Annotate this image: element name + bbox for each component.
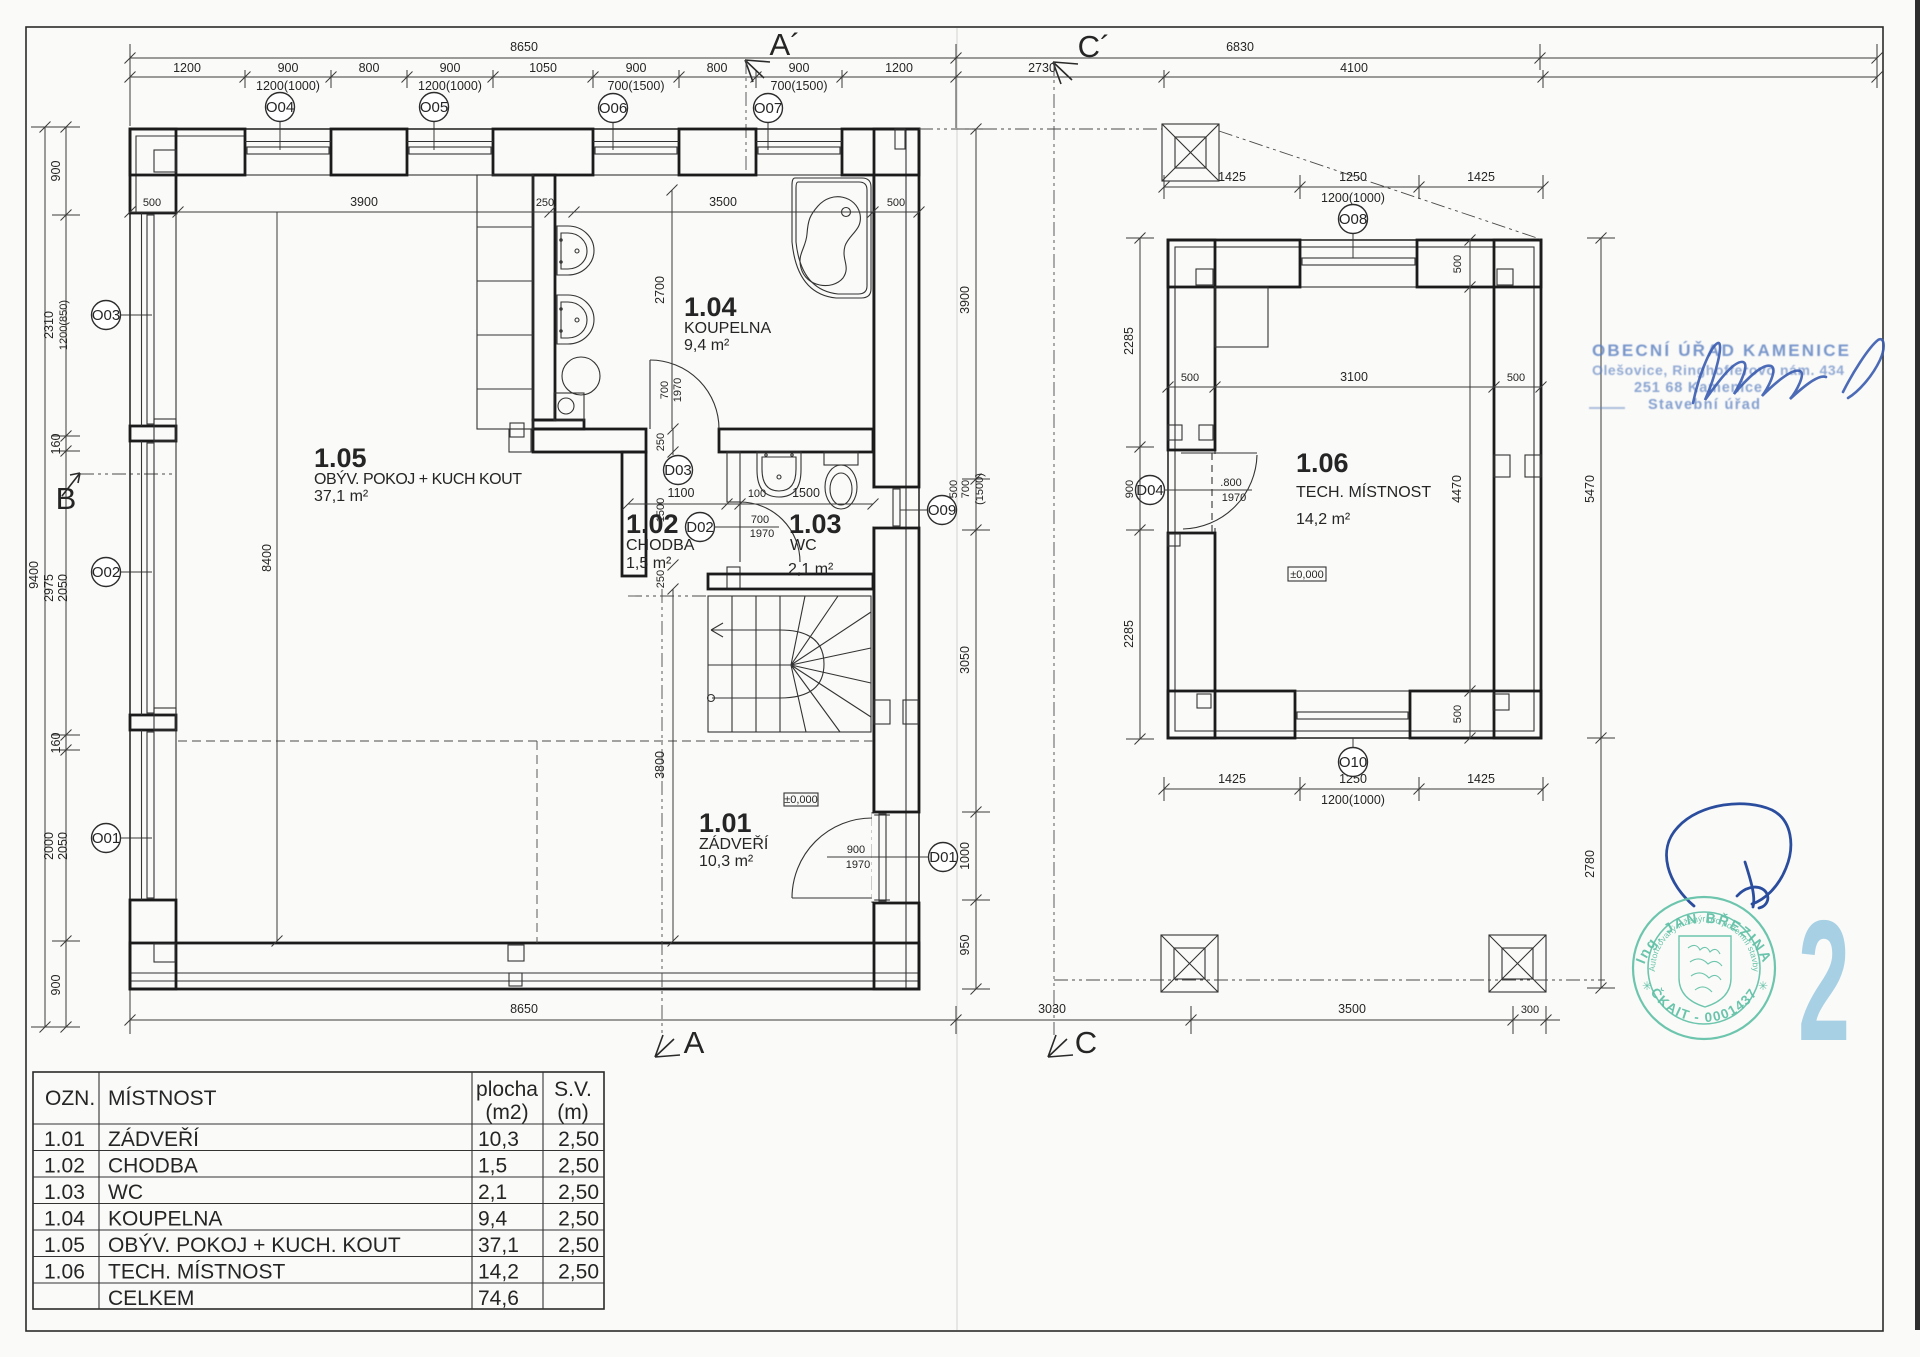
section line B dash-dot — [80, 473, 176, 475]
level marker zadveri — [784, 793, 818, 806]
svg-text:3800: 3800 — [653, 751, 667, 779]
svg-text:1,5 m²: 1,5 m² — [626, 555, 672, 572]
svg-text:1200(850): 1200(850) — [58, 300, 70, 350]
svg-text:900: 900 — [626, 61, 647, 75]
svg-text:2730: 2730 — [1028, 61, 1056, 75]
level marker tech — [1288, 567, 1326, 581]
round stamp CKAIT — [1633, 897, 1775, 1039]
svg-text:CHODBA: CHODBA — [108, 1155, 198, 1178]
svg-text:2,50: 2,50 — [558, 1208, 599, 1231]
dim chain right of tech 5470/2780 — [1587, 233, 1615, 994]
svg-text:O09: O09 — [928, 502, 956, 519]
svg-text:1200(1000): 1200(1000) — [1321, 793, 1385, 807]
svg-text:2,50: 2,50 — [558, 1128, 599, 1151]
door D04 leaf and swing — [1181, 453, 1257, 529]
svg-text:37,1: 37,1 — [478, 1234, 519, 1257]
dimension chain top line segments 1200.. — [125, 70, 1883, 88]
svg-text:ZÁDVEŘÍ: ZÁDVEŘÍ — [699, 834, 769, 853]
svg-text:✳: ✳ — [1642, 979, 1652, 993]
outer cladding leaf lines — [131, 129, 918, 989]
svg-text:MÍSTNOST: MÍSTNOST — [108, 1087, 217, 1110]
svg-text:10,3: 10,3 — [478, 1128, 519, 1151]
svg-text:O10: O10 — [1339, 754, 1367, 771]
svg-text:O06: O06 — [599, 100, 627, 117]
dim chain 1425/1250/1425 top of tech — [1159, 175, 1549, 199]
window tag O05 — [433, 122, 435, 150]
svg-text:O01: O01 — [92, 830, 120, 847]
svg-text:WC: WC — [108, 1181, 143, 1204]
svg-text:3030: 3030 — [1038, 1002, 1066, 1016]
window tag O09 with leader — [900, 509, 927, 511]
section line A top dash-dot — [745, 60, 747, 175]
svg-text:1.02: 1.02 — [44, 1155, 85, 1178]
svg-text:CHODBA: CHODBA — [626, 537, 695, 554]
cover opening D04 — [1214, 454, 1216, 528]
svg-text:KOUPELNA: KOUPELNA — [108, 1208, 222, 1231]
svg-text:C: C — [1075, 1025, 1097, 1060]
column pier top — [1162, 124, 1219, 181]
svg-text:(m2): (m2) — [485, 1101, 528, 1124]
svg-text:A: A — [684, 1025, 705, 1060]
svg-text:1.04: 1.04 — [44, 1208, 85, 1231]
door tag D01 with leader — [827, 856, 928, 858]
WC / stairs wall — [708, 574, 873, 589]
svg-text:2,50: 2,50 — [558, 1155, 599, 1178]
svg-text:700(1500): 700(1500) — [771, 79, 828, 93]
window tag O02 — [120, 571, 152, 573]
svg-text:WC: WC — [790, 537, 817, 554]
WC washbasin — [757, 452, 801, 497]
left wall windows O03 O02 O01 glazing — [142, 213, 155, 900]
tech wall notches — [1168, 269, 1541, 710]
living room floor marker square — [510, 423, 524, 437]
kitchen counter — [477, 175, 533, 452]
personal signature big loop — [1667, 804, 1791, 908]
svg-text:8650: 8650 — [510, 1002, 538, 1016]
window O10 glazing — [1297, 712, 1408, 719]
top wall windows O04-O07 glazing — [245, 142, 842, 155]
svg-text:±0,000: ±0,000 — [784, 794, 818, 806]
svg-text:1.05: 1.05 — [314, 443, 367, 473]
window tag O10 — [1352, 738, 1354, 748]
svg-text:1425: 1425 — [1467, 772, 1495, 786]
window tag O06 — [612, 123, 614, 150]
svg-text:O04: O04 — [266, 99, 294, 116]
svg-text:37,1 m²: 37,1 m² — [314, 488, 369, 505]
dimension chain left segments 900/2310/160/2975/160/2000/900 — [52, 122, 80, 1033]
svg-text:D03: D03 — [664, 462, 692, 479]
svg-text:700: 700 — [751, 514, 769, 526]
svg-text:250: 250 — [536, 197, 554, 209]
svg-text:2285: 2285 — [1122, 327, 1136, 355]
window tag O03 — [120, 314, 152, 316]
svg-text:2,50: 2,50 — [558, 1261, 599, 1284]
svg-text:OBÝV. POKOJ + KUCH. KOUT: OBÝV. POKOJ + KUCH. KOUT — [108, 1234, 401, 1257]
svg-text:700(1500): 700(1500) — [608, 79, 665, 93]
interior dim line 500/3900/250/3500/500 — [125, 207, 925, 218]
floor drain with circle — [554, 393, 584, 420]
svg-text:4470: 4470 — [1450, 475, 1464, 503]
stamp shield emblem — [1679, 936, 1731, 1007]
right wall masonry piers — [874, 129, 919, 989]
svg-text:OBÝV. POKOJ + KUCH KOUT: OBÝV. POKOJ + KUCH KOUT — [314, 469, 522, 488]
dim chain chodba vertical 250/1500/250/3800 — [668, 424, 679, 947]
svg-text:500: 500 — [1452, 705, 1464, 723]
svg-text:TECH. MÍSTNOST: TECH. MÍSTNOST — [108, 1261, 286, 1284]
svg-text:3050: 3050 — [958, 646, 972, 674]
dashed opening line living/entry — [178, 741, 873, 943]
section marker C bottom — [1048, 1035, 1073, 1057]
section marker B left — [62, 473, 80, 496]
svg-text:1200(1000): 1200(1000) — [418, 79, 482, 93]
svg-text:3100: 3100 — [1340, 370, 1368, 384]
svg-text:CELKEM: CELKEM — [108, 1287, 194, 1310]
svg-text:2,50: 2,50 — [558, 1181, 599, 1204]
svg-text:1200: 1200 — [173, 61, 201, 75]
dimension chain top line 8650 / 6830 — [125, 44, 1883, 70]
svg-text:8400: 8400 — [260, 544, 274, 572]
svg-text:5470: 5470 — [1583, 475, 1597, 503]
svg-text:(m): (m) — [557, 1101, 588, 1124]
svg-text:300: 300 — [1521, 1004, 1539, 1016]
column pier bottom left — [1161, 935, 1218, 992]
tech interior face — [1215, 287, 1494, 691]
svg-text:A´: A´ — [770, 27, 801, 62]
svg-text:900: 900 — [440, 61, 461, 75]
svg-text:TECH. MÍSTNOST: TECH. MÍSTNOST — [1296, 482, 1431, 501]
svg-text:14,2: 14,2 — [478, 1261, 519, 1284]
svg-text:2975: 2975 — [42, 574, 56, 602]
svg-text:ZÁDVEŘÍ: ZÁDVEŘÍ — [108, 1128, 199, 1151]
roof outline dash-dot lines — [919, 129, 1605, 980]
svg-text:900: 900 — [278, 61, 299, 75]
svg-text:500: 500 — [1181, 372, 1199, 384]
svg-text:O02: O02 — [92, 564, 120, 581]
svg-text:1100: 1100 — [668, 486, 695, 500]
dim 8400 living room vertical — [272, 212, 283, 947]
washing machine — [562, 357, 600, 395]
svg-text:O05: O05 — [420, 99, 448, 116]
window tag O08 — [1352, 233, 1354, 258]
svg-text:160: 160 — [49, 434, 63, 455]
svg-text:8650: 8650 — [510, 40, 538, 54]
svg-text:1500: 1500 — [792, 486, 820, 500]
window tag O01 — [120, 837, 152, 839]
tech bottom wall piers — [1168, 691, 1541, 738]
main building outer wall outline — [130, 129, 919, 989]
tech top wall piers — [1168, 240, 1541, 287]
svg-text:3500: 3500 — [1338, 1002, 1366, 1016]
left wall masonry piers — [130, 129, 176, 989]
interior dim 500/3100/500 tech — [1163, 382, 1547, 393]
door D01 entry leaf and swing — [792, 818, 872, 898]
dim chain left of tech 2285/900/2285 — [1126, 233, 1154, 745]
svg-text:3500: 3500 — [709, 195, 737, 209]
svg-text:1.04: 1.04 — [684, 292, 737, 322]
svg-text:(1500): (1500) — [974, 473, 986, 505]
WC partition 100 with D02 opening — [727, 452, 740, 589]
svg-text:10,3 m²: 10,3 m² — [699, 853, 754, 870]
bottom dimension chain 8650/3030/3500/300 — [125, 1006, 1561, 1034]
svg-text:1.05: 1.05 — [44, 1234, 85, 1257]
svg-text:9400: 9400 — [27, 561, 41, 589]
svg-text:±0,000: ±0,000 — [1290, 569, 1324, 581]
dimension chain far left 9400 — [31, 122, 59, 1033]
partition wall kitchen/bathroom 250 — [533, 175, 584, 429]
svg-text:9,4: 9,4 — [478, 1208, 508, 1231]
svg-text:1.03: 1.03 — [789, 509, 842, 539]
window O08 glazing — [1302, 258, 1415, 265]
door tag D04 — [1136, 476, 1165, 505]
window O09 glazing in right wall — [893, 489, 900, 526]
chodba left wall — [622, 452, 646, 576]
svg-text:1000: 1000 — [958, 842, 972, 870]
svg-text:250: 250 — [655, 570, 667, 588]
svg-text:100: 100 — [748, 488, 766, 500]
room table — [33, 1072, 604, 1309]
column pier bottom right — [1489, 935, 1546, 992]
svg-text:1500: 1500 — [655, 498, 667, 522]
svg-text:900: 900 — [847, 844, 865, 856]
svg-text:S.V.: S.V. — [554, 1078, 592, 1101]
wall notch details — [154, 129, 918, 986]
door D01 opening jamb lines — [874, 814, 890, 901]
svg-text:74,6: 74,6 — [478, 1287, 519, 1310]
window tag O07 — [767, 123, 769, 150]
svg-text:1.06: 1.06 — [1296, 448, 1349, 478]
svg-text:2285: 2285 — [1122, 620, 1136, 648]
svg-text:500: 500 — [1452, 255, 1464, 273]
bathroom washbasin 2 — [557, 295, 594, 344]
svg-text:14,2 m²: 14,2 m² — [1296, 511, 1351, 528]
svg-text:2310: 2310 — [42, 311, 56, 339]
svg-text:2000: 2000 — [42, 832, 56, 860]
svg-text:1.03: 1.03 — [44, 1181, 85, 1204]
stairs walking line with arrow — [708, 623, 825, 702]
svg-text:800: 800 — [707, 61, 728, 75]
dim chain 1425/1250/1425 bottom of tech — [1159, 777, 1549, 801]
svg-text:1970: 1970 — [750, 528, 774, 540]
section line C dash-dot vertical — [1053, 62, 1055, 1035]
svg-text:2: 2 — [1798, 885, 1850, 1077]
opening covers — [872, 489, 874, 902]
section marker A bottom — [655, 1035, 680, 1057]
svg-text:250: 250 — [655, 433, 667, 451]
svg-text:2050: 2050 — [56, 574, 70, 602]
WC toilet — [824, 452, 858, 509]
svg-text:3900: 3900 — [350, 195, 378, 209]
svg-text:D02: D02 — [686, 519, 714, 536]
svg-text:1425: 1425 — [1218, 170, 1246, 184]
svg-text:1425: 1425 — [1218, 772, 1246, 786]
chodba open boundary dash-dot — [628, 595, 708, 597]
svg-text:500: 500 — [143, 197, 161, 209]
svg-text:1,5: 1,5 — [478, 1155, 507, 1178]
svg-text:1.02: 1.02 — [626, 509, 679, 539]
svg-text:plocha: plocha — [476, 1078, 538, 1101]
svg-text:2050: 2050 — [56, 832, 70, 860]
svg-text:.800: .800 — [1220, 477, 1241, 489]
svg-text:1200(1000): 1200(1000) — [1321, 191, 1385, 205]
section marker C&#180; top — [1053, 62, 1078, 84]
svg-text:2700: 2700 — [653, 276, 667, 304]
dim 2700 bathroom vertical — [667, 185, 678, 430]
svg-text:700: 700 — [960, 480, 972, 498]
section marker A&#180; top — [745, 60, 770, 82]
door D02 wc leaf and swing — [740, 502, 800, 562]
svg-text:900: 900 — [1124, 480, 1136, 498]
svg-text:500: 500 — [948, 480, 960, 498]
svg-text:1200(1000): 1200(1000) — [256, 79, 320, 93]
svg-text:2,50: 2,50 — [558, 1234, 599, 1257]
svg-text:O08: O08 — [1339, 211, 1367, 228]
bathroom corner bathtub — [792, 178, 871, 298]
svg-text:500: 500 — [1507, 372, 1525, 384]
bathroom and WC top wall with D03 opening — [533, 429, 873, 452]
svg-text:C´: C´ — [1078, 29, 1111, 64]
svg-text:1970: 1970 — [1222, 492, 1246, 504]
svg-text:900: 900 — [789, 61, 810, 75]
svg-text:160: 160 — [49, 733, 63, 754]
scanner dark right edge — [1915, 0, 1920, 1330]
svg-text:2,1 m²: 2,1 m² — [788, 561, 834, 578]
svg-text:2,1: 2,1 — [478, 1181, 507, 1204]
svg-text:900: 900 — [49, 975, 63, 996]
svg-text:1250: 1250 — [1339, 170, 1367, 184]
svg-text:B: B — [56, 481, 77, 516]
door D03 bathroom leaf and swing — [650, 360, 719, 429]
svg-text:1050: 1050 — [529, 61, 557, 75]
top wall masonry piers — [130, 129, 919, 175]
svg-text:1970: 1970 — [672, 378, 684, 402]
door tag D02 — [686, 513, 715, 542]
svg-text:✳: ✳ — [1758, 979, 1768, 993]
svg-text:3900: 3900 — [958, 286, 972, 314]
svg-text:D01: D01 — [929, 849, 957, 866]
staircase — [708, 596, 871, 732]
door tag D03 — [664, 456, 693, 485]
svg-text:500: 500 — [887, 197, 905, 209]
svg-text:2780: 2780 — [1583, 850, 1597, 878]
svg-text:1.06: 1.06 — [44, 1261, 85, 1284]
svg-text:900: 900 — [49, 161, 63, 182]
svg-text:1.01: 1.01 — [699, 808, 752, 838]
tech right wall — [1494, 240, 1541, 738]
svg-text:700: 700 — [659, 381, 671, 399]
svg-text:1970: 1970 — [846, 859, 870, 871]
signature over office stamp — [1693, 339, 1884, 403]
dimension chain right of main building — [962, 124, 990, 995]
svg-text:O07: O07 — [754, 100, 782, 117]
svg-text:4100: 4100 — [1340, 61, 1368, 75]
paper fold crease — [956, 28, 958, 1330]
tech outer cladding leaf — [1175, 247, 1534, 731]
interior dim 500/4470/500 tech vertical — [1465, 235, 1476, 744]
bathroom washbasin 1 — [557, 226, 594, 275]
tech left wall piers — [1168, 240, 1215, 738]
section line A bottom dash-dot — [661, 589, 663, 1035]
svg-text:800: 800 — [359, 61, 380, 75]
interior face of walls — [176, 175, 873, 943]
svg-text:1.01: 1.01 — [44, 1128, 85, 1151]
svg-text:OZN.: OZN. — [45, 1087, 95, 1110]
svg-text:950: 950 — [958, 935, 972, 956]
svg-text:6830: 6830 — [1226, 40, 1254, 54]
svg-text:1200: 1200 — [885, 61, 913, 75]
bottom wall masonry — [130, 943, 919, 989]
svg-text:9,4 m²: 9,4 m² — [684, 337, 730, 354]
svg-text:O03: O03 — [92, 307, 120, 324]
svg-text:KOUPELNA: KOUPELNA — [684, 320, 771, 337]
window tag O04 — [279, 122, 281, 150]
svg-text:1425: 1425 — [1467, 170, 1495, 184]
tech building outer wall — [1168, 240, 1541, 738]
chimney block tech room — [1215, 287, 1268, 347]
dim line 1100/100/1500 — [623, 499, 879, 510]
